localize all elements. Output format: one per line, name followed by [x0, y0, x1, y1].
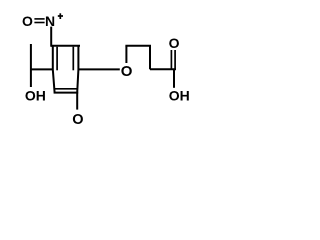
chain bond to carboxyl C [150, 68, 176, 70]
nitro plus charge [58, 15, 63, 17]
svg-text:N: N [45, 13, 55, 29]
ring left edge V1-V6-V5 [53, 46, 55, 93]
nitro O=N double bond [34, 18, 44, 20]
methyl + carbinol vertical bond [30, 44, 32, 87]
ring inner double bond left [56, 47, 58, 71]
svg-text:O: O [22, 13, 33, 29]
ring inner double bond right [72, 47, 74, 71]
bond carbinol C to ring V6 [31, 68, 53, 70]
carboxyl C=O double bond [170, 50, 172, 69]
chain top bond CH2-CH2 [125, 45, 151, 47]
bond ring V4 down to bottom O [76, 93, 78, 110]
svg-text:OH: OH [169, 87, 190, 103]
svg-text:O: O [169, 35, 180, 51]
bond ring V3 to ether O [78, 68, 119, 70]
bond carboxyl C to OH [173, 69, 175, 88]
ring inner double bond bottom [55, 88, 77, 90]
bond ether O up to CH2 [125, 46, 127, 63]
svg-text:O: O [72, 112, 83, 128]
svg-text:O: O [121, 63, 133, 80]
chain down bond [149, 46, 151, 70]
bond N to ring C1 [50, 27, 52, 47]
ring right edge V2-V3-V4 [77, 46, 78, 93]
benzene ring top edge V1-V2 [51, 45, 80, 47]
ring bottom edge V4-V5 [54, 92, 79, 94]
svg-text:OH: OH [25, 87, 46, 103]
